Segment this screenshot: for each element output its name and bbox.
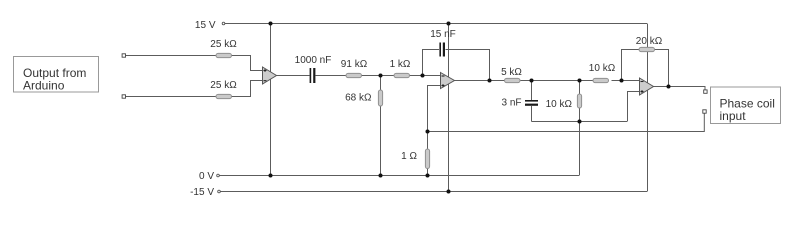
wire op-amp U2 + input branch xyxy=(428,86,442,132)
wire 3nF cap bottom to bottom bus xyxy=(531,106,533,122)
terminal input A xyxy=(122,54,125,57)
terminal phase coil bottom xyxy=(703,110,706,113)
junction U2 output / C2 feedback node xyxy=(488,79,492,83)
wire sense return bus xyxy=(428,113,705,132)
op-amp U2 xyxy=(441,73,455,89)
svg-text:1000 nF: 1000 nF xyxy=(295,55,332,66)
resistor 5k xyxy=(505,78,521,82)
resistor 10k shunt vertical xyxy=(577,94,581,108)
junction sense bus / 1 ohm node xyxy=(426,130,430,134)
wire feedback 20k right branch to output node xyxy=(655,50,669,87)
junction 91k/68k/1k node xyxy=(379,74,383,78)
op-amp U3 xyxy=(640,78,654,95)
svg-text:25 kΩ: 25 kΩ xyxy=(210,80,237,91)
capacitor 1000nF xyxy=(310,68,316,83)
op-amp U1 xyxy=(263,67,277,84)
wire 10k series to op-amp U3 - input xyxy=(612,80,640,82)
svg-text:15 V: 15 V xyxy=(195,20,216,31)
wire 5k to 10k horizontal xyxy=(521,80,594,82)
wire supply drop through op-amp U1 xyxy=(270,24,272,176)
svg-text:5 kΩ: 5 kΩ xyxy=(501,67,522,78)
svg-text:68 kΩ: 68 kΩ xyxy=(345,93,372,104)
junction U3 inverting input node xyxy=(620,79,624,83)
wire 10k shunt bottom xyxy=(579,108,581,122)
svg-text:91 kΩ: 91 kΩ xyxy=(341,59,368,70)
wire feedback 20k left branch xyxy=(622,50,640,81)
wire op-amp U3 output to phase coil terminal xyxy=(654,87,706,90)
wire RC bottom bus xyxy=(532,121,628,123)
svg-text:10 kΩ: 10 kΩ xyxy=(546,99,573,110)
wire 0V rail xyxy=(220,175,580,177)
svg-text:20 kΩ: 20 kΩ xyxy=(636,36,663,47)
svg-text:1 kΩ: 1 kΩ xyxy=(390,59,411,70)
junction 1 ohm at 0V rail xyxy=(426,174,430,178)
junction U3 output / 20k feedback node xyxy=(667,85,671,89)
junction 5k / 3nF node xyxy=(530,79,534,83)
resistor 25k B xyxy=(216,94,232,98)
wire bottom bus up to op-amp U3 + input xyxy=(628,92,640,122)
wire feedback C2 left branch xyxy=(423,50,440,76)
wire 0V riser to RC network xyxy=(579,121,581,176)
resistor 68k vertical xyxy=(378,90,382,106)
junction U2 inverting input node xyxy=(421,74,425,78)
wire +15V drop to op-amp U3 and -15V rail riser xyxy=(647,24,649,192)
box Output from Arduino xyxy=(14,57,99,93)
svg-text:Arduino: Arduino xyxy=(23,79,65,93)
svg-text:input: input xyxy=(720,109,747,123)
wire node to 1 ohm resistor top xyxy=(427,132,429,150)
resistor 1 ohm vertical xyxy=(425,149,429,169)
wire op-amp U1 output to C1 xyxy=(277,75,310,77)
terminal input B xyxy=(122,95,125,98)
junction RC bottom bus / 0V riser node xyxy=(578,120,582,124)
terminal -15V xyxy=(218,190,221,193)
junction U1 supply at 15V rail xyxy=(269,22,273,26)
junction U2 supply at -15V rail xyxy=(447,190,451,194)
wire node to 68k resistor top xyxy=(380,76,382,91)
resistor 20k feedback xyxy=(639,47,655,51)
svg-text:10 kΩ: 10 kΩ xyxy=(589,63,616,74)
junction U2 supply at 15V rail xyxy=(447,22,451,26)
resistor 1k xyxy=(394,73,410,77)
terminal 15V xyxy=(222,22,225,25)
resistor 10k series xyxy=(593,78,609,82)
svg-text:-15 V: -15 V xyxy=(190,187,214,198)
wire node to 3nF cap top xyxy=(531,81,533,101)
wire 10k shunt top xyxy=(579,81,581,95)
resistor 91k xyxy=(346,73,362,77)
wire 68k resistor bottom to 0V rail xyxy=(380,106,382,175)
box Phase coil input xyxy=(711,87,781,124)
junction 68k at 0V rail xyxy=(379,174,383,178)
wire input B resistor to op-amp U1 - input xyxy=(232,81,263,97)
terminal 0V xyxy=(217,174,220,177)
wire op-amp U2 output to 5k xyxy=(455,80,505,82)
junction 10k shunt top node xyxy=(578,79,582,83)
svg-text:0 V: 0 V xyxy=(199,171,214,182)
wire R5 to op-amp U2 - input xyxy=(410,75,442,77)
capacitor 15nF xyxy=(439,43,445,57)
wire feedback C2 right branch to output node xyxy=(446,50,490,81)
wire C1 to R3 xyxy=(316,75,347,77)
wire -15V rail xyxy=(221,191,648,193)
wire 1 ohm resistor bottom to 0V rail xyxy=(427,169,429,176)
svg-text:15 nF: 15 nF xyxy=(430,29,456,40)
svg-text:1 Ω: 1 Ω xyxy=(401,151,417,162)
junction U1 supply at 0V rail xyxy=(269,174,273,178)
wire input A terminal to resistor xyxy=(126,55,217,57)
wire input B terminal to resistor xyxy=(126,96,217,98)
wire input A resistor to op-amp U1 + input xyxy=(232,56,263,71)
wire 15V rail xyxy=(225,23,647,25)
svg-text:3 nF: 3 nF xyxy=(501,98,521,109)
svg-text:25 kΩ: 25 kΩ xyxy=(210,39,237,50)
terminal phase coil top xyxy=(704,90,707,93)
wire supply drop through op-amp U2 xyxy=(448,24,450,192)
capacitor 3nF xyxy=(525,100,538,106)
wire R3 to R5 through node xyxy=(362,75,395,77)
resistor 25k A xyxy=(216,53,232,57)
